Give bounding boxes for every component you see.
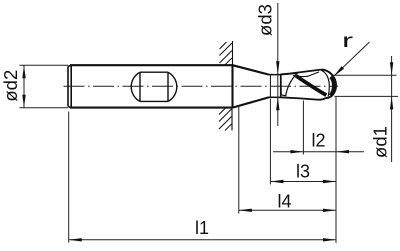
chuck line above (232, 41, 234, 65)
dimension ød2 extension lines (20, 65, 69, 107)
ball nose arc (321, 70, 336, 98)
l2 arrow left (tip at 337) (336, 150, 349, 153)
ød3 arrow up (276, 97, 279, 110)
l2 arrow right (tip at 303.4) (290, 150, 303, 153)
shank left end cap with chamfer (68, 65, 71, 107)
chuck hatch below (219, 108, 232, 131)
taper from shank to neck (233, 65, 270, 107)
ød2 arrow down (22, 95, 25, 108)
l3 extension line (shared with ød3 dim line lower part) (269, 99, 271, 185)
ød1 arrow down (top, outside) (390, 62, 393, 75)
l1 arrow right (323, 238, 336, 241)
svg-text:l4: l4 (277, 192, 291, 212)
dimension ød2 line (23, 65, 25, 107)
l4 arrow right (323, 209, 336, 212)
radius leader arrowhead (334, 66, 345, 76)
cutter head outline bottom (281, 97, 326, 99)
l2 left extension line (302, 101, 304, 155)
l1 left extension line (68, 112, 70, 243)
dimension l3 line (270, 181, 336, 183)
dimension ød1 extension lines (331, 75, 398, 96)
ød3 arrow down (276, 61, 279, 74)
flute gash line (293, 72, 319, 77)
dimension l4 line (239, 209, 336, 211)
cutting edge thick stroke (296, 76, 326, 95)
cutter head outline top (281, 70, 322, 75)
right common extension line (335, 96, 337, 243)
ød1 arrow up (bottom, outside) (390, 96, 393, 109)
neck d3 (269, 75, 281, 98)
svg-text:r: r (342, 29, 353, 51)
shank body d2 (70, 65, 233, 107)
ød2 arrow up (22, 65, 25, 78)
dimension ød3 line (277, 3, 279, 126)
flute wedge (281, 73, 297, 95)
svg-text:ød1: ød1 (370, 126, 391, 158)
l4 left extension line (238, 107, 240, 214)
ball edge crescent (330, 77, 333, 95)
l3 arrow left (270, 180, 283, 183)
svg-text:ød2: ød2 (0, 70, 21, 102)
head shoulder (280, 75, 282, 98)
dimension l2 line with outside arrows (273, 151, 364, 153)
neck transition line (269, 75, 271, 98)
radius leader r line (335, 42, 370, 76)
chuck hatch above (220, 42, 233, 65)
chuck line below (231, 108, 233, 131)
centerline (64, 85, 339, 87)
svg-text:ød3: ød3 (255, 4, 276, 36)
svg-text:l1: l1 (195, 218, 209, 238)
svg-text:l3: l3 (296, 162, 310, 182)
l3 arrow right (323, 180, 336, 183)
svg-text:l2: l2 (311, 131, 325, 151)
l4 arrow left (239, 209, 252, 212)
dimension l1 line (69, 239, 336, 241)
ball flute inner arc (322, 71, 330, 97)
l1 arrow left (69, 238, 82, 241)
dimension ød1 line (391, 56, 393, 162)
weldon flat barrel (131, 72, 177, 101)
